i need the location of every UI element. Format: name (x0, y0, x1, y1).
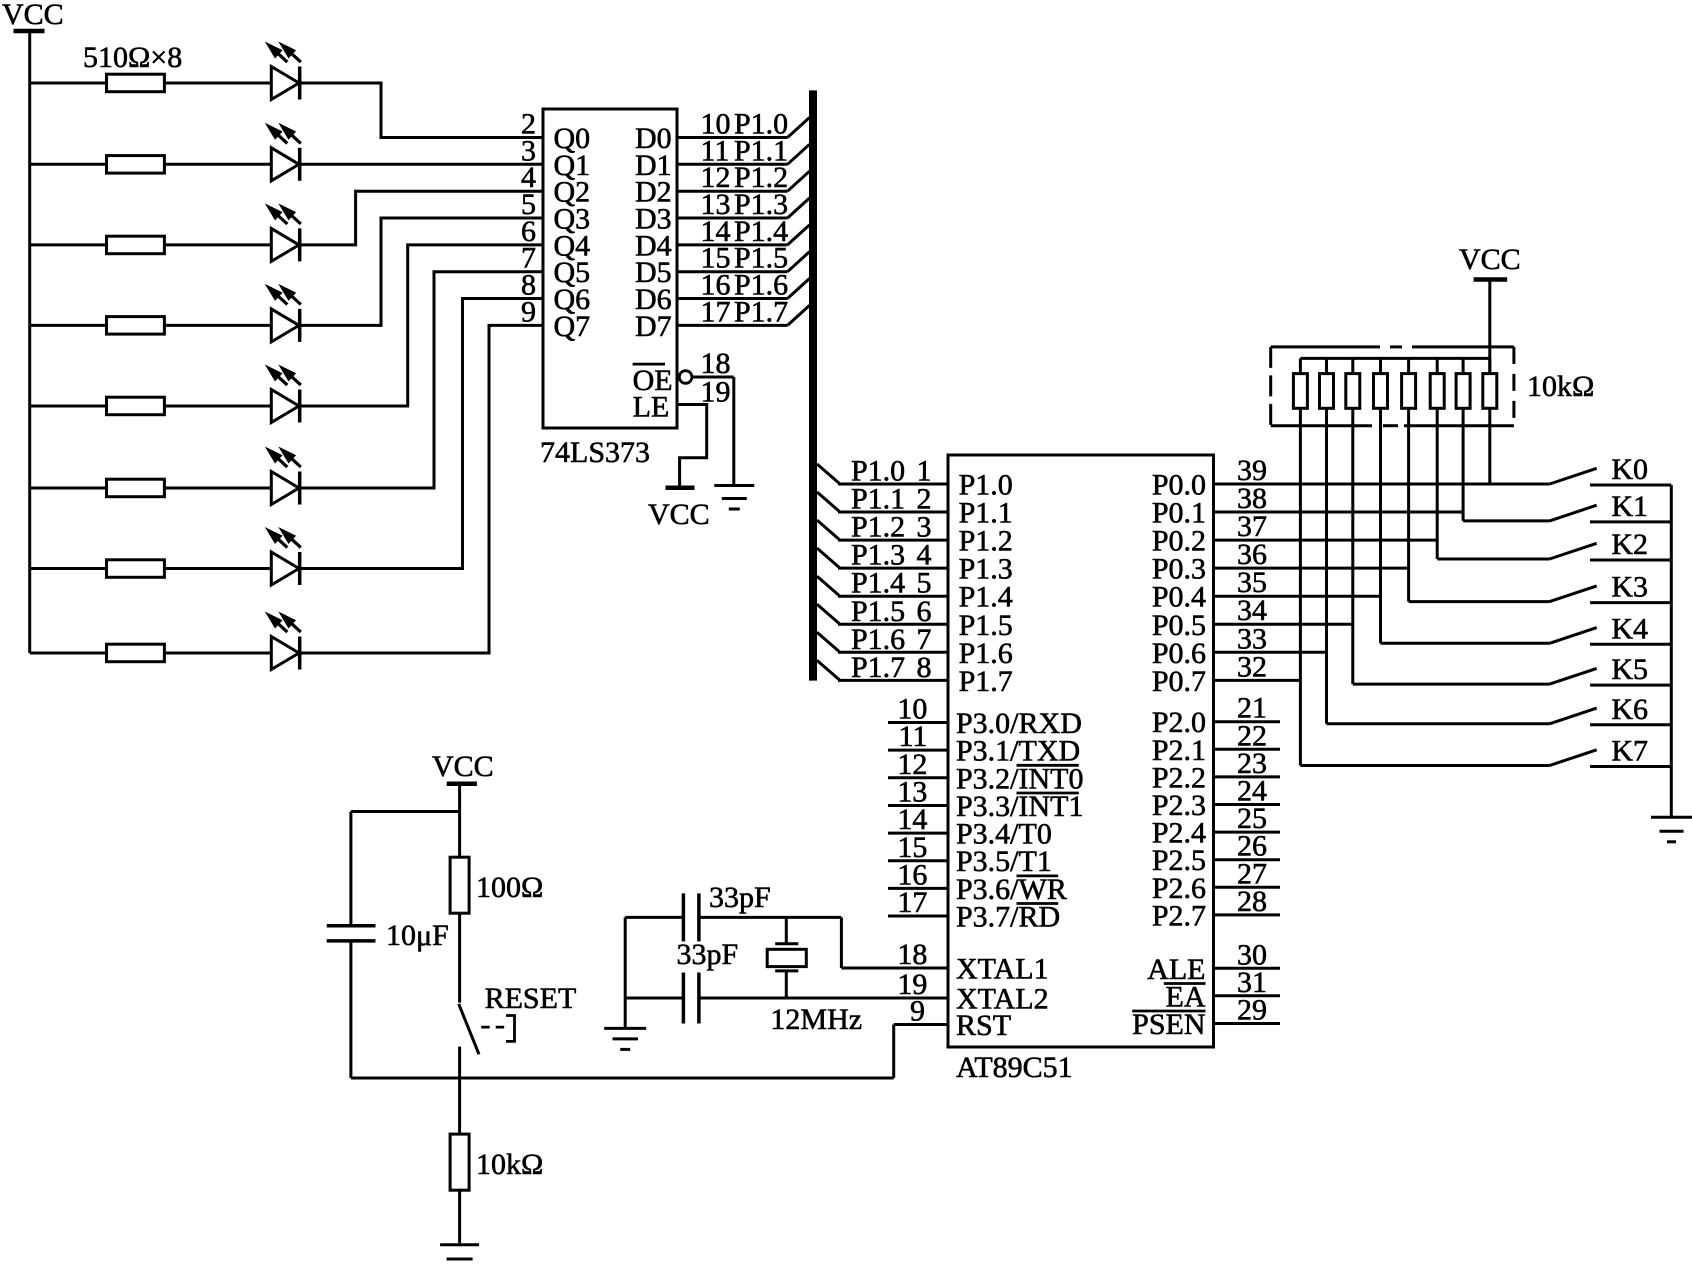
pin label PSEN with overline (1132, 1008, 1205, 1041)
pull-up resistor RP1-8 (10k) (1483, 358, 1497, 484)
pin number 24 (1237, 775, 1267, 808)
label K1 (1611, 490, 1648, 523)
bus entry slash D2 (788, 171, 810, 191)
net label P1.5 pin 6 (851, 595, 932, 628)
svg-text:Q7: Q7 (554, 310, 591, 343)
power VCC (key pull-up supply) (1459, 243, 1521, 280)
pin number 27 (1237, 857, 1267, 890)
wire: resistor R4 to LED D4 (164, 324, 271, 327)
wire: AT89C51 P3.2 pin 12 stub (888, 776, 948, 779)
wire: resistor R8 to LED D8 (164, 652, 271, 655)
pin label P2.6 inside AT89C51 (1152, 872, 1206, 905)
pin label Q3 (554, 203, 591, 236)
bus exit slash P1.1 (817, 492, 840, 512)
switch K5 (1550, 668, 1672, 685)
wire: AT89C51 P0.1 pin 38 to pull-up column (1214, 511, 1464, 514)
wire: resistor R2 to LED D2 (164, 163, 271, 166)
label: 33pF (C2) (677, 938, 739, 971)
wire: pull-up column to key K5 (1353, 683, 1550, 686)
pin label P2.3 inside AT89C51 (1152, 789, 1206, 822)
wire: LED D4 cathode jog to 74LS373 (300, 218, 543, 325)
ground for reset divider (440, 1245, 479, 1266)
svg-text:17: 17 (897, 886, 927, 919)
net label P1.1 pin 2 (851, 483, 932, 516)
pin number 16 (897, 858, 927, 891)
wire: resistor R7 to LED D7 (164, 567, 271, 570)
pin label Q0 (554, 122, 591, 155)
pin number 10 (897, 693, 927, 726)
pin label P0.2 inside AT89C51 (1152, 525, 1206, 558)
pin number 19 (701, 376, 731, 409)
svg-text:K3: K3 (1611, 571, 1648, 604)
pin label P0.3 inside AT89C51 (1152, 553, 1206, 586)
wire: row 4 from rail to resistor R4 (30, 324, 107, 327)
wire: pull-up column to key K7 (1300, 764, 1549, 767)
bus (P1 port thick vertical bus) (809, 90, 817, 680)
pin label RST (956, 1009, 1011, 1042)
capacitor C3 10uF (327, 926, 376, 941)
wire: crystal cap common to ground (624, 917, 627, 1028)
svg-text:AT89C51: AT89C51 (956, 1051, 1073, 1084)
pin label P0.7 inside AT89C51 (1152, 665, 1206, 698)
pin number 7 (74LS373 Q5) (521, 242, 536, 275)
wire: LED D1 cathode jog to 74LS373 (300, 83, 543, 138)
wire: AT89C51 P2.6 pin 27 stub (1214, 886, 1281, 889)
pull-up resistor RP1-1 (10k) (1293, 358, 1307, 765)
pin number 18 (701, 347, 731, 380)
wire: LED D6 cathode jog to 74LS373 (300, 272, 543, 488)
power VCC (top-left LED supply) (2, 0, 64, 31)
resistor R3 (510 ohm) (107, 236, 165, 254)
wire: LED D2 cathode to 74LS373 pin 3 (300, 163, 543, 166)
pin number 14 (897, 803, 927, 836)
wire: LED D5 cathode jog to 74LS373 (300, 245, 543, 406)
wire: LED D8 cathode jog to 74LS373 (300, 325, 543, 653)
wire: bus to AT89C51 P1.6 pin 7 (838, 651, 948, 654)
wire: XTAL1 pin 18 (841, 967, 948, 970)
svg-text:8: 8 (917, 651, 932, 684)
wire: AT89C51 P2.0 pin 21 stub (1214, 720, 1281, 723)
LED D3 (265, 203, 301, 261)
pin label P1.0 inside AT89C51 (959, 469, 1013, 502)
pin label Q5 (554, 256, 591, 289)
wire: 74LS373 D7 to bus (677, 324, 788, 327)
wire: AT89C51 P2.2 pin 23 stub (1214, 775, 1281, 778)
pin number 15 / net P1.5 (701, 242, 789, 275)
pin number 25 (1237, 802, 1267, 835)
pin label P1.6 inside AT89C51 (959, 637, 1013, 670)
net label P1.4 pin 5 (851, 567, 932, 600)
resistor R5 (510 ohm) (107, 397, 165, 415)
svg-text:74LS373: 74LS373 (540, 436, 650, 469)
svg-text:29: 29 (1237, 994, 1267, 1027)
net label P1.2 pin 3 (851, 511, 932, 544)
pin label LE (633, 391, 670, 424)
pin label XTAL1 (956, 953, 1049, 986)
wire: resistor R5 to LED D5 (164, 405, 271, 408)
wire: AT89C51 P3.3 pin 13 stub (888, 804, 948, 807)
ground for OE of 74LS373 (714, 486, 754, 510)
label: AT89C51 (956, 1051, 1073, 1084)
pin number 38 (1237, 482, 1267, 515)
wire: bus to AT89C51 P1.2 pin 3 (838, 539, 948, 542)
pin label P1.3 inside AT89C51 (959, 553, 1013, 586)
bus entry slash D5 (788, 252, 810, 272)
wire: crystal top node (625, 916, 841, 919)
pin label OE (active low) with overline (633, 364, 673, 397)
wire: AT89C51 P2.5 pin 26 stub (1214, 858, 1281, 861)
wire: resistor R1 to LED D1 (164, 82, 271, 85)
wire: AT89C51 ALE pin 30 stub (1214, 967, 1281, 970)
pin label P3.2/INT0 inside AT89C51 (956, 762, 1084, 795)
pin label P2.7 inside AT89C51 (1152, 899, 1206, 932)
switch K3 (1550, 586, 1672, 603)
pin number 22 (1237, 719, 1267, 752)
wire: RST pin 9 to reset network (351, 1025, 948, 1079)
wire: 74LS373 D5 to bus (677, 270, 788, 273)
svg-text:100Ω: 100Ω (476, 871, 543, 904)
wire: AT89C51 P0.2 pin 37 to pull-up column (1214, 539, 1438, 542)
svg-text:K7: K7 (1611, 735, 1648, 768)
svg-text:510Ω×8: 510Ω×8 (83, 41, 182, 74)
wire: AT89C51 P2.1 pin 22 stub (1214, 748, 1281, 751)
pull-up resistor RP1-2 (10k) (1320, 358, 1334, 723)
pin number 3 (74LS373 Q1) (521, 134, 536, 167)
net label P1.6 pin 7 (851, 623, 932, 656)
pin number 32 (1237, 650, 1267, 683)
svg-text:32: 32 (1237, 650, 1267, 683)
LED D4 (265, 284, 301, 342)
label K3 (1611, 571, 1648, 604)
label: 74LS373 (540, 436, 650, 469)
wire: AT89C51 PSEN pin 29 stub (1214, 1022, 1281, 1025)
wire: row 2 from rail to resistor R2 (30, 163, 107, 166)
wire: AT89C51 EA pin 31 stub (1214, 994, 1281, 997)
wire: OE pin 18 to ground (692, 377, 734, 486)
label K4 (1611, 612, 1648, 645)
wire: bus to AT89C51 P1.7 pin 8 (838, 679, 948, 682)
pin label P3.0/RXD inside AT89C51 (956, 707, 1082, 740)
wire: row 6 from rail to resistor R6 (30, 487, 107, 490)
pin label P2.4 inside AT89C51 (1152, 817, 1206, 850)
pin number 28 (1237, 885, 1267, 918)
wire: pull-up column to key K2 (1437, 558, 1549, 561)
ground for keys (1651, 817, 1692, 842)
resistor pack RP1 dashed outline (1271, 347, 1514, 426)
svg-text:K6: K6 (1611, 693, 1648, 726)
svg-text:P3.7/RD: P3.7/RD (956, 901, 1060, 934)
resistor R7 (510 ohm) (107, 560, 165, 578)
label: 10k ohm pull-up value (1527, 370, 1594, 403)
label: 10uF (386, 919, 449, 952)
pin label P0.5 inside AT89C51 (1152, 609, 1206, 642)
pin number 19 (XTAL2) (897, 968, 927, 1001)
pin number 5 (74LS373 Q3) (521, 188, 536, 221)
label: 510 ohm x8 resistor value (83, 41, 182, 74)
svg-text:10μF: 10μF (386, 919, 449, 952)
wire: crystal top node to XTAL1 (840, 917, 843, 968)
wire: pull-up column to key K3 (1409, 600, 1550, 603)
pin label P3.1/TXD inside AT89C51 (956, 735, 1080, 768)
pin number 37 (1237, 510, 1267, 543)
wire: AT89C51 P2.3 pin 24 stub (1214, 803, 1281, 806)
svg-text:P1.7: P1.7 (734, 295, 788, 328)
switch K6 (1550, 708, 1672, 725)
power VCC (74LS373 LE tie) (648, 488, 710, 531)
label: 10k ohm (476, 1148, 543, 1181)
wire: pull-up column to key K4 (1381, 642, 1550, 645)
pin label P2.2 inside AT89C51 (1152, 761, 1206, 794)
crystal Y1 12MHz (767, 917, 806, 998)
svg-text:K2: K2 (1611, 528, 1648, 561)
pin label P1.4 inside AT89C51 (959, 581, 1013, 614)
bus entry slash D7 (788, 305, 810, 325)
pin label D6 (635, 283, 672, 316)
pin label P2.5 inside AT89C51 (1152, 844, 1206, 877)
pin label D5 (635, 256, 672, 289)
wire: 74LS373 D2 to bus (677, 190, 788, 193)
wire: AT89C51 P0.4 pin 35 to pull-up column (1214, 595, 1381, 598)
wire: AT89C51 P3.0 pin 10 stub (888, 721, 948, 724)
wire: pull-up column to key K6 (1327, 722, 1550, 725)
pin number 30 (1237, 938, 1267, 971)
svg-text:PSEN: PSEN (1132, 1008, 1205, 1041)
pin number 12 (897, 748, 927, 781)
pin label EA with overline (1164, 980, 1206, 1013)
bus entry slash D1 (788, 144, 810, 164)
pin label P3.4/T0 inside AT89C51 (956, 818, 1052, 851)
wire: AT89C51 P0.6 pin 33 to pull-up column (1214, 651, 1327, 654)
wire: key common rail to ground (1670, 485, 1673, 817)
bus entry slash D3 (788, 198, 810, 218)
wire: row 8 from rail to resistor R8 (30, 652, 107, 655)
resistor R6 (510 ohm) (107, 479, 165, 497)
bus entry slash D4 (788, 225, 810, 245)
svg-text:10kΩ: 10kΩ (1527, 370, 1594, 403)
wire: resistor pack common top rail (1300, 357, 1489, 360)
pin number 21 (1237, 692, 1267, 725)
wire: 74LS373 D4 to bus (677, 243, 788, 246)
wire: AT89C51 P2.4 pin 25 stub (1214, 831, 1281, 834)
svg-text:XTAL1: XTAL1 (956, 953, 1049, 986)
net label P1.7 pin 8 (851, 651, 932, 684)
bus exit slash P1.0 (817, 464, 840, 484)
pin number 11 (899, 720, 928, 753)
bus entry slash D6 (788, 279, 810, 299)
svg-text:12MHz: 12MHz (770, 1003, 862, 1036)
pin number 29 (1237, 994, 1267, 1027)
switch K0 (1550, 468, 1672, 485)
switch K4 (1550, 628, 1672, 645)
label K5 (1611, 653, 1648, 686)
bus exit slash P1.3 (817, 548, 840, 568)
wire: LED D7 cathode jog to 74LS373 (300, 299, 543, 569)
pin number 11 / net P1.1 (701, 134, 789, 167)
pull-up resistor RP1-6 (10k) (1430, 358, 1444, 559)
pin label P2.0 inside AT89C51 (1152, 706, 1206, 739)
pull-up resistor RP1-7 (10k) (1456, 358, 1470, 521)
pin label D3 (635, 203, 672, 236)
svg-text:33pF: 33pF (677, 938, 739, 971)
wire: VCC to resistor pack (1488, 280, 1491, 374)
bus exit slash P1.4 (817, 576, 840, 596)
pin number 10 / net P1.0 (701, 108, 789, 141)
wire: row 1 from rail to resistor R1 (30, 82, 107, 85)
pin number 33 (1237, 622, 1267, 655)
pull-up resistor RP1-5 (10k) (1402, 358, 1416, 601)
wire: bus to AT89C51 P1.0 pin 1 (838, 483, 948, 486)
pin number 18 (XTAL1) (897, 938, 927, 971)
wire: 74LS373 D0 to bus (677, 136, 788, 139)
resistor R4 (510 ohm) (107, 317, 165, 335)
pull-up resistor RP1-3 (10k) (1346, 358, 1360, 684)
wire: AT89C51 P3.7 pin 17 stub (888, 915, 948, 918)
pin number 13 / net P1.3 (701, 188, 789, 221)
label K7 (1611, 735, 1648, 768)
wire: VCC junction to capacitor branch (351, 812, 460, 926)
svg-text:K5: K5 (1611, 653, 1648, 686)
pin label P0.1 inside AT89C51 (1152, 497, 1206, 530)
wire: VCC to reset resistor (458, 784, 461, 857)
pin label D4 (635, 229, 672, 262)
wire: row 5 from rail to resistor R5 (30, 405, 107, 408)
wire: resistor R9 to reset switch (458, 913, 461, 1002)
svg-text:LE: LE (633, 391, 670, 424)
label K6 (1611, 693, 1648, 726)
wire: LE pin 19 to VCC (677, 405, 707, 488)
svg-text:RESET: RESET (485, 982, 577, 1015)
svg-text:K1: K1 (1611, 490, 1648, 523)
switch K1 (1550, 505, 1672, 522)
svg-text:VCC: VCC (2, 0, 64, 31)
pin label P1.2 inside AT89C51 (959, 525, 1013, 558)
svg-text:K0: K0 (1611, 453, 1648, 486)
pin label P0.0 inside AT89C51 (1152, 469, 1206, 502)
wire: 74LS373 D3 to bus (677, 217, 788, 220)
label: 33pF (C1) (709, 881, 771, 914)
wire: AT89C51 P0.7 pin 32 to pull-up column (1214, 679, 1301, 682)
pin number 9 (RST) (910, 995, 925, 1028)
pin number 9 (74LS373 Q7) (521, 295, 536, 328)
latch U1 74LS373 body (543, 109, 677, 428)
pin number 8 (74LS373 Q6) (521, 269, 536, 302)
svg-text:D7: D7 (635, 310, 672, 343)
pin number 17 / net P1.7 (701, 295, 789, 328)
capacitor C1 33pF (683, 893, 699, 941)
pin label ALE (1147, 953, 1205, 986)
pin label P3.7/RD inside AT89C51 (956, 901, 1060, 934)
pin label P0.4 inside AT89C51 (1152, 581, 1206, 614)
switch K7 (1550, 750, 1672, 767)
LED D7 (265, 527, 301, 585)
pin label XTAL2 (956, 983, 1049, 1016)
pin number 39 (1237, 454, 1267, 487)
svg-text:VCC: VCC (432, 750, 494, 783)
label K0 (1611, 453, 1648, 486)
wire: AT89C51 P0.0 pin 39 to key K0 (1214, 483, 1550, 486)
wire: AT89C51 P0.5 pin 34 to pull-up column (1214, 623, 1353, 626)
pin label P3.3/INT1 inside AT89C51 (956, 790, 1084, 823)
pin number 35 (1237, 566, 1267, 599)
ground for crystal caps (604, 1028, 646, 1049)
power VCC (reset supply) (432, 750, 494, 784)
svg-text:K4: K4 (1611, 612, 1648, 645)
wire: bus to AT89C51 P1.1 pin 2 (838, 511, 948, 514)
pin number 17 (897, 886, 927, 919)
resistor R10 10k (450, 1078, 469, 1243)
pin label P1.1 inside AT89C51 (959, 497, 1013, 530)
pin label D7 (635, 310, 672, 343)
resistor R2 (510 ohm) (107, 156, 165, 174)
wire: bus to AT89C51 P1.5 pin 6 (838, 623, 948, 626)
svg-text:18: 18 (897, 938, 927, 971)
svg-text:P2.7: P2.7 (1152, 899, 1206, 932)
LED D8 (265, 612, 301, 670)
bus exit slash P1.2 (817, 520, 840, 540)
bus entry slash D0 (788, 118, 810, 138)
pin label P3.5/T1 inside AT89C51 (956, 845, 1052, 878)
pin number 14 / net P1.4 (701, 215, 789, 248)
wire: AT89C51 P3.5 pin 15 stub (888, 859, 948, 862)
LED D2 (265, 123, 301, 181)
LED D5 (265, 365, 301, 423)
pin number 12 / net P1.2 (701, 161, 789, 194)
wire: bus to AT89C51 P1.4 pin 5 (838, 595, 948, 598)
LED D6 (265, 447, 301, 505)
switch K2 (1550, 543, 1672, 560)
wire: AT89C51 P3.6 pin 16 stub (888, 887, 948, 890)
net label P1.0 pin 1 (851, 455, 932, 488)
pin label D0 (635, 122, 672, 155)
svg-text:33pF: 33pF (709, 881, 771, 914)
switch RESET (push-button) (459, 1004, 479, 1078)
svg-text:P0.7: P0.7 (1152, 665, 1206, 698)
pin number 23 (1237, 747, 1267, 780)
pin label D2 (635, 176, 672, 209)
wire: AT89C51 P2.7 pin 28 stub (1214, 913, 1281, 916)
LED D1 (265, 42, 301, 100)
pin number 36 (1237, 538, 1267, 571)
resistor R8 (510 ohm) (107, 644, 165, 662)
wire: AT89C51 P3.4 pin 14 stub (888, 832, 948, 835)
svg-text:VCC: VCC (1459, 243, 1521, 276)
label: 12MHz (770, 1003, 862, 1036)
wire: AT89C51 P3.1 pin 11 stub (888, 749, 948, 752)
wire: resistor R6 to LED D6 (164, 487, 271, 490)
pin label Q1 (554, 149, 591, 182)
wire: capacitor C3 to reset node (349, 941, 352, 1078)
svg-text:28: 28 (1237, 885, 1267, 918)
pin number 26 (1237, 830, 1267, 863)
wire: 74LS373 D6 to bus (677, 297, 788, 300)
pin label P1.5 inside AT89C51 (959, 609, 1013, 642)
bus exit slash P1.5 (817, 604, 840, 624)
svg-text:P1.7: P1.7 (959, 665, 1013, 698)
pin label P2.1 inside AT89C51 (1152, 734, 1206, 767)
wire: crystal bottom node to XTAL2 (625, 997, 948, 1000)
bus exit slash P1.7 (817, 660, 840, 680)
label K2 (1611, 528, 1648, 561)
pin number 2 (74LS373 Q0) (521, 108, 536, 141)
pull-up resistor RP1-4 (10k) (1374, 358, 1388, 643)
pin number 16 / net P1.6 (701, 269, 789, 302)
pin label D1 (635, 149, 672, 182)
push-button actuator (dashed) (481, 1016, 514, 1042)
svg-text:19: 19 (701, 376, 731, 409)
svg-text:9: 9 (521, 295, 536, 328)
wire: AT89C51 P0.3 pin 36 to pull-up column (1214, 567, 1409, 570)
svg-text:P1.7: P1.7 (851, 651, 905, 684)
